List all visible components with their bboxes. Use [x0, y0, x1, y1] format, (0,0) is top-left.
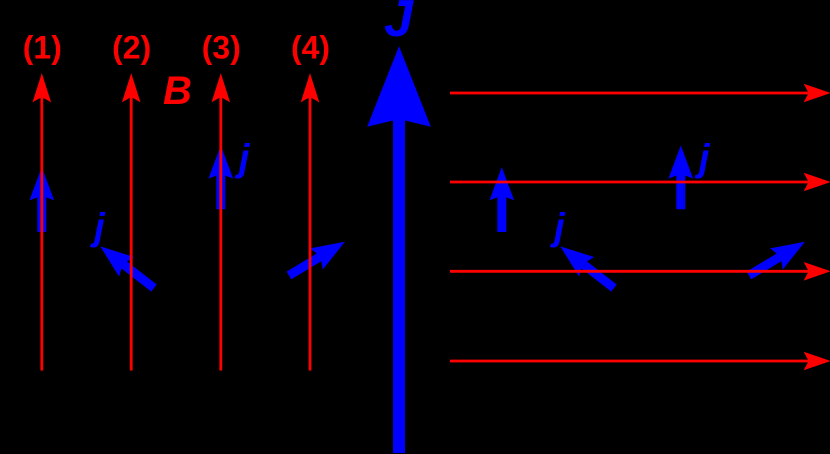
- current density arrow j3 (on line 3): [209, 147, 232, 209]
- big current arrow J: [368, 48, 430, 454]
- current density arrow j2 (crossing line 2, tilted up-left): [94, 238, 161, 297]
- magnetic field line B4 (vertical, arrow up): [301, 75, 318, 371]
- svg-text:(2): (2): [112, 30, 151, 66]
- current density arrow j1 (on line 1): [30, 169, 53, 233]
- current density arrow j6 (crossing row 3, tilted up-left): [554, 238, 621, 297]
- magnetic field line B7 (horizontal, arrow right): [450, 263, 830, 280]
- current density arrow j8 (crossing row 3, tilted up-right): [743, 233, 810, 286]
- svg-text:(4): (4): [291, 30, 330, 66]
- current density arrow j7 (crossing row 2, right): [669, 147, 692, 209]
- magnetic field line B5 (horizontal, arrow right): [450, 84, 830, 101]
- magnetic field line B1 (vertical, arrow up): [33, 75, 50, 371]
- svg-text:B: B: [163, 69, 192, 113]
- svg-text:(1): (1): [23, 30, 62, 66]
- current density arrow j4 (crossing line 4, tilted up-right): [283, 233, 350, 286]
- magnetic field line B2 (vertical, arrow up): [123, 75, 140, 371]
- magnetic field line B8 (horizontal, arrow right): [450, 352, 830, 369]
- svg-text:(3): (3): [202, 30, 241, 66]
- svg-text:J: J: [384, 0, 414, 48]
- magnetic field line B3 (vertical, arrow up): [212, 75, 229, 371]
- magnetic field line B6 (horizontal, arrow right): [450, 173, 830, 190]
- current density arrow j5 (crossing row 2): [490, 169, 513, 233]
